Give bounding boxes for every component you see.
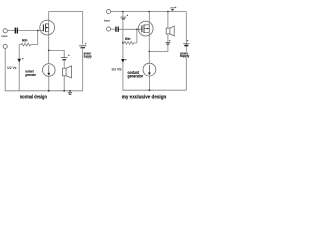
svg-text:+: + — [126, 13, 128, 17]
svg-text:+: + — [187, 39, 189, 43]
svg-text:Rin: Rin — [22, 39, 28, 43]
svg-text:supply: supply — [180, 54, 190, 58]
svg-text:input: input — [104, 19, 110, 23]
svg-text:input: input — [2, 34, 8, 38]
svg-text:1/2 Vs: 1/2 Vs — [7, 65, 17, 70]
svg-text:1/2 VS: 1/2 VS — [111, 66, 121, 71]
svg-text:supply: supply — [84, 54, 93, 58]
svg-text:+: + — [85, 41, 87, 45]
svg-text:Rin: Rin — [125, 37, 131, 41]
svg-text:my exclusive design: my exclusive design — [122, 95, 167, 101]
svg-text:+: + — [68, 53, 70, 57]
svg-text:generator: generator — [128, 74, 144, 79]
svg-text:+: + — [169, 39, 171, 43]
svg-text:+: + — [22, 56, 24, 60]
svg-text:+: + — [125, 57, 127, 61]
svg-text:normal design: normal design — [20, 95, 47, 101]
svg-text:generator: generator — [25, 73, 36, 77]
svg-text:+: + — [175, 5, 177, 9]
